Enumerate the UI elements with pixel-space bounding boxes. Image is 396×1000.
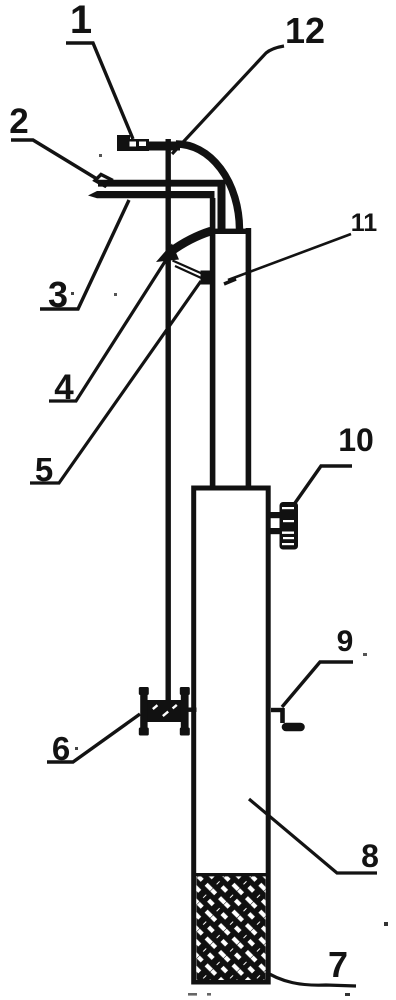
lower arm part 3 (tapered bar) <box>88 191 215 198</box>
leader line to part 11 with arrow tip <box>228 234 351 280</box>
connecting rod part 5 (double line) <box>173 261 205 275</box>
leader line to part 3 <box>40 200 129 309</box>
top horizontal arm <box>146 142 180 151</box>
leader line to part 9 <box>282 662 353 707</box>
curved hose part 12 <box>176 144 240 229</box>
plug top line <box>193 873 269 876</box>
leader line to part 5 <box>30 281 201 483</box>
stray speckles <box>71 154 388 996</box>
tube part 11 right wall <box>246 228 252 488</box>
leader line to part 4 <box>49 260 166 401</box>
leader line to part 6 <box>47 714 140 762</box>
wire reel part 6 <box>139 687 197 736</box>
stop block part 5 <box>201 271 214 285</box>
knurled knob part 10 <box>269 502 298 550</box>
probe tip part 2 <box>95 175 111 187</box>
tube part 11 left wall <box>210 198 216 488</box>
leader line to part 2 <box>11 140 97 179</box>
crank handle part 9 <box>271 708 301 727</box>
vertical post / wire rod <box>166 139 171 701</box>
svg-text:8: 8 <box>361 838 379 874</box>
leader line to part 1 <box>66 43 133 139</box>
svg-text:11: 11 <box>351 209 378 237</box>
clamp head part 1 <box>117 135 149 151</box>
arrowhead of part 4 <box>156 244 179 263</box>
svg-text:1: 1 <box>70 0 92 42</box>
cylinder body part 8 <box>194 488 269 982</box>
leader line to part 12 <box>172 46 284 154</box>
bottom plug part 7 hatched <box>197 876 266 981</box>
svg-text:7: 7 <box>328 944 348 985</box>
svg-text:9: 9 <box>337 625 354 658</box>
leader line to part 10 <box>295 466 352 503</box>
svg-text:12: 12 <box>285 10 325 51</box>
leader line to part 8 <box>249 799 377 873</box>
svg-text:2: 2 <box>9 102 28 141</box>
leader line to part 7 <box>261 969 356 986</box>
svg-text:10: 10 <box>338 422 374 458</box>
swoosh arrow part 4 <box>171 231 211 252</box>
tube part 11 top edge <box>213 229 251 234</box>
upper arm part 2/3 (outer L) <box>98 180 226 229</box>
